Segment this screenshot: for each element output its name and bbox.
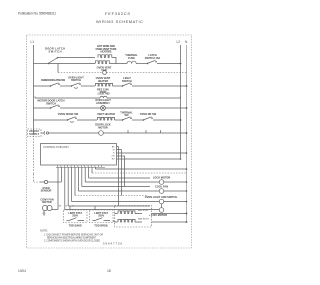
wire vertical x119.5 [124,156,126,187]
svg-text:2. COMPONENTS SHOWN WITH OVEN: 2. COMPONENTS SHOWN WITH OVEN DOOR CLOSE… [44,241,100,243]
wire rung C seg4 [113,85,123,87]
wire staircase y195 dashed [75,195,148,197]
svg-text:59647730: 59647730 [103,241,122,245]
svg-text:BAK ELMT: BAK ELMT [138,217,149,220]
svg-text:HEATERS: HEATERS [101,50,112,54]
motor cooling fan M4 [159,189,164,194]
svg-text:OVEN DOOR LATCH SW: OVEN DOOR LATCH SW [41,78,66,82]
wire vertical x113.5 [118,147,120,207]
svg-text:NOTE:: NOTE: [40,229,48,233]
wire rung C seg2 [60,85,71,87]
svg-text:250V: 250V [72,214,78,218]
svg-text:FAN: FAN [101,68,106,72]
switch thermal S6 [50,105,59,108]
wire lower branch cont [109,63,127,65]
wire rung G from box [41,132,44,134]
svg-text:FUSE: FUSE [128,56,135,60]
switch in TOD1 [67,218,85,221]
wire to L2 [157,63,181,65]
svg-text:LOCK MOTOR: LOCK MOTOR [153,176,171,180]
svg-text:Publication No. 5995438211: Publication No. 5995438211 [18,12,56,16]
svg-text:SENSOR: SENSOR [41,189,52,193]
coil surface heater R3 [96,83,113,86]
wire rung F to L2 [153,119,181,121]
supply box 240VAC [28,129,42,137]
svg-text:ASSEMBLY: ASSEMBLY [96,101,110,105]
wire bundle vertical 12 [94,167,96,169]
wire drops into limit boxes [70,206,95,210]
wire row B dashed left [58,72,103,74]
fuse thermal bumps [127,61,136,63]
wire staircase y186 [82,186,150,188]
motor convection M6 [42,205,47,210]
switch door S9 [143,117,152,120]
wire staircase y190.5 circle2 row [78,190,186,192]
coil vent heater R4 [98,117,115,120]
switch light S5 [122,83,131,86]
svg-text:L2: L2 [177,40,181,44]
junction dot N bottom [186,213,188,215]
lamp oven light DS2 [159,199,164,204]
svg-text:OVEN DR SW: OVEN DR SW [140,112,157,116]
wire rung E to N [105,107,186,109]
wire bundle vertical 6 [74,167,76,195]
svg-text:REPLACING ANY ELECTRICAL WIRIN: REPLACING ANY ELECTRICAL WIRING COMPONEN… [47,236,97,239]
svg-text:FEF352CS: FEF352CS [105,11,130,16]
wire pin BK [117,146,119,148]
wire bundle vertical 1 [57,167,59,209]
wire elements to N [113,214,187,223]
wire rung A lower from L1 [34,63,49,65]
wire dashed L1 to sensor row [34,174,41,182]
svg-text:TOD BROIL: TOD BROIL [94,224,108,228]
switch latch S2 [147,60,156,63]
svg-text:W: W [113,150,115,152]
elements box dashed [115,206,152,228]
wire drop to row B [57,64,59,73]
junction dot N rung G [186,132,188,134]
lamp oven light DS1 [101,106,106,111]
svg-text:MOTOR: MOTOR [98,126,108,130]
wire staircase y168.5 to N [95,168,186,170]
coil bake element R6 [118,219,135,222]
motor oven vent fan [103,71,107,75]
wire rung E seg2 [60,107,101,109]
switch door latch S1 [48,58,57,64]
tie ticks rung G [128,130,161,133]
wire staircase y177.5 [89,177,150,179]
wire rung F seg4 [132,119,143,121]
svg-text:250V: 250V [98,214,104,218]
wire rung C seg3 [81,85,95,87]
wire N rail [186,45,188,223]
wire pin R long [117,152,187,154]
wire L1 rail [33,45,35,133]
svg-text:VENT HEATER: VENT HEATER [97,112,115,116]
wire between DS2 and M5 [161,204,163,208]
svg-text:COOL FAN: COOL FAN [155,185,168,189]
svg-text:W: W [66,205,68,207]
svg-text:SWITCH: SWITCH [49,50,62,54]
wire rung C from L1 [34,85,51,87]
wire row B dashed right to N [106,72,186,74]
wire pin OR [117,155,125,157]
connector comb J1 [56,166,105,168]
junction dot N rung C [186,85,188,87]
motor lock M3 [159,180,164,185]
wire staircase y201 circle3 row [72,201,187,203]
switch thermal S8 [122,117,131,120]
svg-text:L1: L1 [31,40,35,44]
junction dot L2 rung F [180,119,182,121]
wire rung G to N [103,132,186,134]
motor door lock M2 [99,131,104,136]
wire bundle vertical 4 [67,167,69,206]
svg-text:SWITCH: SWITCH [122,79,132,83]
junction dot L2 rung A [180,63,182,65]
wire L2 rail [180,45,182,159]
wire staircase y172.5 dashed [92,172,187,174]
svg-text:MOTOR: MOTOR [42,200,52,204]
switch oven door S7 [67,117,76,122]
schematic border frame [27,35,192,248]
wire bundle vertical 7 [77,167,79,191]
wire rung F seg2 [77,119,97,121]
coil broil element R5 [118,211,135,214]
limit box TOD1 [64,210,88,223]
ground M6 [43,211,46,216]
wire bundle vertical 2 [60,167,62,182]
switch in TOD2 [93,218,111,221]
wire after fuse [136,63,147,65]
svg-text:SWITCH 16A: SWITCH 16A [145,56,161,60]
wire rung A upper branch [58,57,96,59]
svg-text:CONTROL PCB ASSY: CONTROL PCB ASSY [43,145,69,149]
wire upper branch join [112,58,116,64]
svg-text:TOD BAKE: TOD BAKE [69,224,83,228]
wire pin BU long to L2 [117,158,181,160]
wire rung D [35,97,181,99]
connector plug P1 [43,131,46,134]
wire rung F seg3 [115,119,123,121]
sensor RTD RT1 [40,181,44,183]
limit box TOD2 [90,210,114,223]
svg-text:OVEN DOOR SW: OVEN DOOR SW [58,112,79,116]
wire staircase y205.5 [68,205,150,207]
wire circle4 row [65,209,159,211]
wire rung G seg2 [49,132,99,134]
wire staircase y181.5 circle1 row [85,181,186,183]
wire bundle vertical 9 [84,167,86,182]
switch door S3 [50,83,59,86]
wire bundle vertical 10 [88,167,90,178]
wire bundle vertical 5 [71,167,73,201]
svg-text:HEATER: HEATER [98,79,108,83]
svg-text:WIRING SCHEMATIC: WIRING SCHEMATIC [96,19,143,24]
wire vertical x116.5 [121,150,123,196]
wire rung C to N [132,85,187,87]
switch oven light S4 [71,83,80,88]
wire rung E from L1 [34,107,51,109]
svg-text:SWITCH: SWITCH [46,101,56,105]
wire rung F from L1 [34,119,68,121]
motor latch M5 [159,208,164,213]
wire L1 rail dashed lower [33,133,35,174]
wire bundle vertical 11 [91,167,93,173]
fuse rung D bumps [100,96,107,98]
svg-text:SUPPLY: SUPPLY [29,132,39,136]
svg-text:18: 18 [107,269,111,273]
coil vent tube heater lower [96,61,110,64]
wire rung A lower branch [48,63,95,65]
wire bundle vertical 8 [81,167,83,186]
svg-text:SW: SW [124,113,129,117]
control board U1 [41,144,117,166]
coil vent tube heater upper [98,55,112,58]
svg-text:OVEN LIGHT AND SWITCH: OVEN LIGHT AND SWITCH [145,195,178,199]
svg-text:BRL ELMT: BRL ELMT [138,210,149,212]
junction dot N rung E [186,107,188,109]
svg-text:1 BXL 465: 1 BXL 465 [97,91,110,95]
wire pin W [117,149,122,151]
svg-text:SWITCH: SWITCH [71,78,81,82]
wire M6 to bundle [52,209,58,211]
wire bundle vertical 3 [64,167,66,209]
svg-text:10/04: 10/04 [18,269,26,273]
svg-text:1. DISCONNECT POWER BEFORE SER: 1. DISCONNECT POWER BEFORE SERVICING UNI… [44,234,103,236]
